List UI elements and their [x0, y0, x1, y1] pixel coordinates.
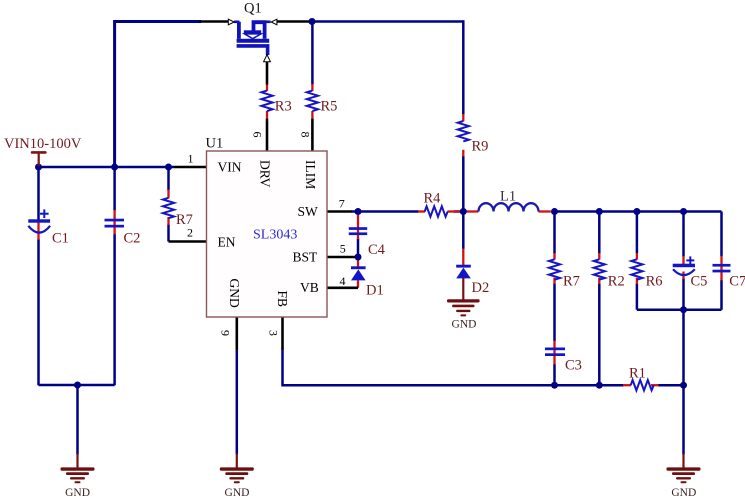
svg-text:R9: R9 — [472, 139, 489, 155]
svg-text:GND: GND — [227, 279, 242, 308]
svg-text:C7: C7 — [729, 274, 745, 290]
svg-text:C5: C5 — [691, 274, 708, 290]
svg-text:SW: SW — [298, 204, 319, 219]
svg-text:2: 2 — [187, 226, 193, 240]
svg-text:GND: GND — [65, 487, 90, 499]
svg-text:6: 6 — [251, 132, 265, 138]
svg-text:R4: R4 — [424, 191, 442, 207]
svg-text:5: 5 — [340, 242, 346, 256]
svg-text:3: 3 — [267, 330, 281, 336]
svg-text:ILIM: ILIM — [303, 160, 318, 189]
svg-text:VIN: VIN — [218, 160, 242, 175]
svg-text:DRV: DRV — [258, 160, 273, 188]
svg-text:GND: GND — [671, 487, 696, 499]
svg-text:8: 8 — [299, 132, 313, 138]
svg-text:C3: C3 — [565, 358, 582, 374]
svg-text:D1: D1 — [366, 283, 384, 299]
svg-text:R2: R2 — [608, 274, 625, 290]
svg-text:D2: D2 — [472, 280, 490, 296]
svg-text:R7: R7 — [563, 274, 580, 290]
svg-text:GND: GND — [225, 487, 250, 499]
svg-text:R3: R3 — [275, 99, 292, 115]
svg-text:7: 7 — [339, 197, 345, 211]
svg-text:R1: R1 — [629, 366, 646, 382]
svg-text:GND: GND — [452, 319, 477, 331]
svg-text:C2: C2 — [124, 231, 141, 247]
svg-text:VB: VB — [300, 280, 319, 295]
svg-text:R5: R5 — [321, 99, 338, 115]
svg-text:R6: R6 — [646, 274, 663, 290]
svg-text:9: 9 — [219, 330, 233, 336]
svg-text:C4: C4 — [368, 242, 386, 258]
svg-text:C1: C1 — [52, 231, 69, 247]
svg-text:EN: EN — [218, 235, 236, 250]
svg-text:1: 1 — [188, 152, 194, 166]
svg-text:FB: FB — [275, 291, 290, 308]
svg-text:4: 4 — [340, 274, 346, 288]
svg-text:SL3043: SL3043 — [253, 228, 297, 243]
svg-text:Q1: Q1 — [244, 1, 262, 17]
svg-text:VIN10-100V: VIN10-100V — [4, 136, 82, 152]
svg-text:BST: BST — [293, 250, 319, 265]
svg-text:U1: U1 — [206, 136, 224, 152]
svg-text:L1: L1 — [500, 189, 516, 205]
